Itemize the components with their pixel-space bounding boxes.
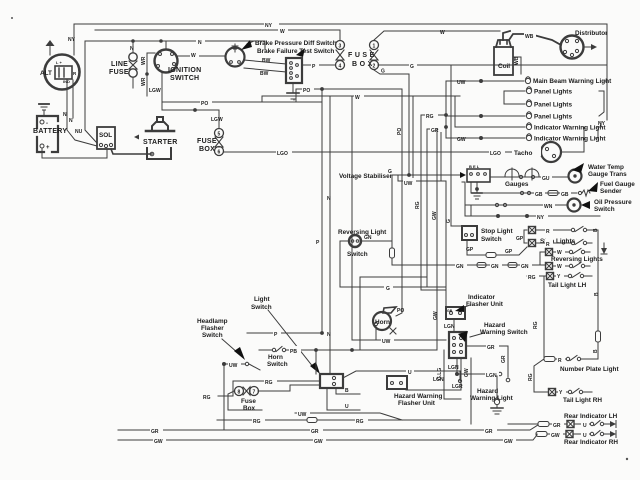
starter motor symbol [146, 117, 174, 131]
brake failure test switch box [286, 58, 302, 83]
arrow into test box [296, 48, 305, 57]
svg-text:Number Plate Light: Number Plate Light [560, 366, 619, 373]
ground above battery [39, 104, 49, 116]
svg-text:LGR: LGR [452, 384, 463, 390]
svg-text:W: W [280, 29, 285, 35]
arrow small left of starter [134, 135, 139, 140]
horn [373, 307, 396, 330]
label light switch [251, 296, 272, 311]
label fuse box top [348, 52, 375, 68]
svg-text:GW: GW [457, 137, 466, 143]
svg-text:IGNITION: IGNITION [168, 67, 202, 74]
svg-text:Switch: Switch [481, 236, 502, 243]
wire stop row2 contacts [536, 240, 592, 245]
reversing light switch [349, 235, 361, 247]
gauge symbol 1 [505, 168, 519, 180]
svg-text:W: W [557, 264, 562, 270]
wire GLG vertical [444, 350, 461, 399]
wire indicator warn row2 [446, 137, 525, 140]
svg-text:GB: GB [561, 192, 569, 198]
svg-text:Distributor: Distributor [575, 30, 608, 37]
svg-text:GB: GB [535, 192, 543, 198]
svg-text:Tacho: Tacho [514, 150, 532, 157]
arrow distributor right [583, 44, 597, 50]
svg-text:U: U [345, 404, 349, 410]
svg-text:N: N [327, 196, 331, 202]
svg-text:Stop Light: Stop Light [481, 228, 513, 235]
svg-text:Rear Indicator RH: Rear Indicator RH [564, 439, 618, 446]
svg-text:U: U [408, 370, 412, 376]
wire GR long row [118, 425, 538, 430]
label hazard warning switch [480, 322, 528, 336]
svg-text:GR: GR [485, 429, 493, 435]
svg-text:GW: GW [314, 439, 323, 445]
lamp panel3 [526, 112, 531, 119]
svg-text:Brake Pressure Diff Switch: Brake Pressure Diff Switch [255, 40, 337, 47]
wire NY right vertical [606, 24, 608, 120]
lamp main beam warning [525, 77, 530, 84]
svg-text:GW: GW [464, 368, 470, 377]
svg-text:Panel Lights: Panel Lights [534, 89, 572, 96]
fuse 1-2 [370, 41, 379, 70]
wire UW main beam row [446, 80, 524, 83]
svg-text:6: 6 [218, 150, 221, 156]
svg-text:Reversing Lights: Reversing Lights [551, 256, 603, 263]
horn switch contacts [259, 347, 316, 375]
light switch box [320, 374, 343, 388]
label headlamp flasher switch [197, 318, 228, 339]
wire ignition W to brake switch [177, 55, 226, 57]
svg-text:Horn: Horn [268, 354, 283, 361]
svg-text:WB: WB [514, 56, 520, 65]
svg-text:GW: GW [154, 439, 163, 445]
wire RG tail LH [527, 276, 546, 359]
rear indicator LH row [508, 421, 616, 428]
svg-text:W: W [355, 95, 360, 101]
wire GW vertical [436, 129, 438, 350]
svg-text:GP: GP [516, 236, 524, 242]
ground hazard light [491, 405, 503, 414]
lamp indicator warn2 [526, 134, 531, 141]
svg-text:RG: RG [356, 419, 364, 425]
svg-text:GR: GR [553, 423, 561, 429]
wire battery plus to SOL [42, 148, 107, 158]
wire RG mid [421, 81, 447, 290]
svg-text:Flasher: Flasher [201, 325, 224, 332]
number plate light resistor [544, 356, 598, 362]
svg-text:B: B [594, 292, 600, 296]
svg-text:UW: UW [229, 363, 238, 369]
svg-text:STARTER: STARTER [143, 139, 178, 146]
svg-text:U: U [583, 423, 587, 429]
wire LGW horizontal to fuse5 [162, 109, 219, 128]
wire B right edge [597, 230, 599, 330]
arrow water temp [572, 163, 584, 173]
hazard warning switch [449, 332, 466, 358]
svg-text:N: N [198, 40, 202, 46]
svg-text:UW: UW [457, 80, 466, 86]
svg-text:BW: BW [260, 71, 269, 77]
svg-text:Gauge Trans: Gauge Trans [588, 171, 627, 178]
svg-text:Switch: Switch [202, 332, 223, 339]
svg-text:5: 5 [218, 132, 221, 138]
wire G vertical long [451, 65, 462, 226]
label rear indicator RH [564, 439, 618, 446]
starter bracket [147, 148, 171, 159]
wire stab left verticals [462, 182, 471, 216]
svg-text:GN: GN [364, 235, 372, 241]
wire WN oil row [465, 203, 567, 206]
svg-text:Box: Box [243, 405, 256, 412]
arrow headlamp flasher [222, 339, 245, 360]
svg-text:Indicator Warning Light: Indicator Warning Light [534, 125, 606, 132]
svg-text:RG: RG [203, 395, 211, 401]
wire GN reversing [361, 240, 392, 242]
brake pressure diff switch circle [226, 44, 245, 67]
wire tail RH contacts [556, 389, 592, 394]
lamp tail RH [549, 389, 556, 396]
wire NY vertical alt [68, 37, 76, 43]
svg-text:PO: PO [397, 308, 404, 314]
horn cross [390, 328, 396, 334]
svg-text:B: B [593, 228, 599, 232]
svg-text:SWITCH: SWITCH [170, 75, 199, 82]
svg-text:ALT: ALT [40, 70, 52, 77]
svg-text:B E L: B E L [469, 164, 480, 169]
wire WB coil right down [513, 57, 521, 74]
headlamp flasher contact [245, 362, 260, 370]
svg-text:8: 8 [238, 390, 241, 396]
svg-text:LINE: LINE [111, 61, 128, 68]
svg-text:Headlamp: Headlamp [197, 318, 228, 325]
wire UW horn row [352, 326, 446, 340]
svg-text:GN: GN [521, 264, 529, 270]
svg-text:WR: WR [141, 56, 147, 65]
label main beam warning light [533, 78, 612, 85]
wire GU row [490, 175, 568, 178]
svg-text:3: 3 [339, 44, 342, 50]
svg-text:GW: GW [432, 211, 438, 220]
stop light switch [462, 226, 477, 240]
svg-text:-: - [46, 121, 48, 127]
fuse 8-7 horizontal [235, 387, 259, 396]
svg-text:WN: WN [544, 204, 553, 210]
svg-text:NU: NU [75, 129, 83, 135]
wire NY top bus [74, 24, 607, 55]
svg-text:Fuel Gauge: Fuel Gauge [600, 181, 635, 188]
arrow indicator flasher [455, 305, 470, 312]
svg-text:GU: GU [542, 176, 550, 182]
wire W upper bus [95, 30, 340, 40]
arrow light switch [268, 310, 320, 374]
wire W fuse1 to coil [374, 31, 500, 40]
arrow above ALT [46, 40, 55, 55]
arrow oil pressure [581, 201, 590, 209]
ground below test box [287, 83, 299, 99]
wire panel light row3 [446, 115, 525, 118]
label rear indicator LH [564, 413, 618, 420]
wire LGO fuse6 to tacho [224, 151, 542, 153]
wire UW row364 [223, 363, 246, 431]
lamp reversing 2 [546, 263, 553, 270]
arrow into stabiliser [460, 172, 466, 178]
line fuse [129, 41, 137, 88]
svg-text:W: W [191, 53, 196, 59]
svg-text:RG: RG [253, 419, 261, 425]
wire LGN hazard bottom [456, 358, 502, 376]
svg-text:GR: GR [431, 128, 439, 134]
wire G to stabiliser [392, 175, 460, 241]
resistor reversing vertical [390, 241, 395, 265]
fuel sender zigzag [578, 190, 590, 196]
svg-text:UW: UW [298, 412, 307, 418]
wire P fuse4 to test box [302, 64, 335, 66]
solenoid SOL [97, 127, 115, 149]
wire reversing left down [340, 241, 349, 287]
wire panel light row1 [504, 91, 525, 104]
svg-text:RG: RG [265, 380, 273, 386]
lamp hazard warning [494, 376, 499, 405]
svg-text:Switch: Switch [347, 251, 368, 258]
dot bottom right [626, 458, 628, 460]
fuse 3-4 [336, 41, 345, 70]
resistor GN 2 [508, 263, 517, 268]
label brake pressure diff switch [255, 40, 337, 55]
svg-text:Tail Light RH: Tail Light RH [563, 397, 602, 404]
wire coil to distributor WB [503, 31, 561, 45]
svg-text:GN: GN [491, 264, 499, 270]
svg-text:N: N [63, 112, 67, 118]
svg-text:RG: RG [426, 114, 434, 120]
water temp gauge trans [569, 170, 582, 183]
svg-text:N: N [130, 46, 134, 52]
wire ignition top N [165, 41, 167, 50]
svg-text:Brake Failure Test Switch: Brake Failure Test Switch [257, 48, 334, 55]
svg-text:G: G [388, 169, 392, 175]
wire stop row1 contacts [536, 227, 598, 232]
wire NY lower row [465, 215, 600, 218]
wire light switch left RG [218, 381, 320, 396]
label fuse box lower [241, 398, 256, 412]
arrow fuel sender [588, 182, 598, 192]
wire tacho right [455, 96, 584, 152]
svg-text:R: R [546, 229, 550, 235]
svg-text:LGO: LGO [277, 151, 288, 157]
svg-text:1: 1 [373, 44, 376, 50]
wire N vertical battery [67, 41, 97, 146]
wire G row287 [340, 286, 446, 288]
svg-text:BOX: BOX [199, 146, 215, 153]
svg-text:+: + [46, 145, 50, 151]
svg-text:GP: GP [466, 247, 474, 253]
wire G vertical from fuse2 [408, 74, 411, 176]
svg-text:NY: NY [537, 215, 545, 221]
svg-text:Flasher Unit: Flasher Unit [466, 301, 504, 308]
rear indicator RH row [536, 431, 616, 438]
svg-text:LGN: LGN [444, 324, 455, 330]
wire G from fuse2 right [378, 64, 607, 66]
wire PO vertical horn [396, 89, 402, 316]
svg-text:Gauges: Gauges [505, 181, 529, 188]
node NY label [264, 20, 279, 29]
wire RG tail RH vertical [534, 359, 548, 392]
svg-text:LGN: LGN [486, 373, 497, 379]
distributor [561, 36, 584, 59]
lamp stop light 2 [529, 240, 536, 247]
svg-text:Voltage Stabiliser: Voltage Stabiliser [339, 173, 393, 180]
wire stop lamps left link [524, 230, 527, 243]
svg-text:Reversing Light: Reversing Light [338, 229, 387, 236]
wire light switch bottom [327, 388, 360, 410]
svg-text:LGN: LGN [448, 365, 459, 371]
resistor fuel [548, 191, 558, 196]
svg-text:UW: UW [404, 181, 413, 187]
wire WR ignition [146, 53, 155, 96]
svg-text:GB: GB [447, 309, 453, 313]
svg-text:G.LG: G.LG [437, 368, 443, 380]
wire N vertical mid [329, 96, 331, 374]
alternator ALT [45, 55, 80, 90]
svg-text:GN: GN [456, 264, 464, 270]
arrow to brake switch [241, 40, 254, 50]
wire light switch right U [343, 371, 462, 383]
node dot topleft [11, 17, 13, 19]
svg-text:PO: PO [201, 101, 208, 107]
wire W mid [262, 96, 460, 102]
battery [37, 116, 58, 152]
svg-text:PO: PO [397, 128, 403, 135]
svg-text:PO: PO [303, 88, 310, 94]
svg-text:GR: GR [501, 355, 507, 363]
svg-text:Horn: Horn [375, 319, 390, 326]
wire row277 [360, 277, 427, 350]
wire reversing row2 [553, 263, 590, 268]
wire GR mid [427, 129, 441, 287]
svg-text:RG: RG [415, 201, 421, 209]
wire ALT terminals down [67, 80, 73, 118]
wire ignition LGW down [161, 72, 163, 110]
svg-text:G: G [386, 286, 390, 292]
svg-text:L +: L + [56, 60, 62, 65]
oil pressure switch [568, 199, 581, 212]
arrow hazard switch [458, 331, 484, 342]
svg-text:W: W [440, 30, 445, 36]
wire UW row413 [295, 413, 402, 420]
wire GP stop [467, 240, 527, 255]
fuse 5-6 [215, 129, 224, 156]
svg-text:R: R [546, 242, 550, 248]
svg-text:Oil Pressure: Oil Pressure [594, 199, 632, 206]
wire P vertical [321, 88, 324, 333]
svg-text:GR: GR [151, 429, 159, 435]
voltage stabiliser box [467, 169, 490, 182]
svg-text:PB: PB [290, 349, 297, 355]
svg-text:Indicator Warning Light: Indicator Warning Light [534, 136, 606, 143]
svg-text:NY: NY [68, 37, 76, 43]
lamp tail LH [547, 273, 554, 280]
svg-text:GW: GW [504, 439, 513, 445]
svg-text:Hazard Warning: Hazard Warning [394, 393, 443, 400]
svg-text:BW: BW [262, 58, 271, 64]
svg-text:LGW: LGW [149, 88, 161, 94]
wire row350 right [315, 349, 437, 352]
svg-text:N: N [69, 118, 73, 124]
lamp indicator warn1 [526, 123, 531, 130]
lamp panel2 [526, 100, 531, 107]
label voltage stabiliser [339, 173, 393, 180]
wire LGN flasher to hazard [453, 319, 455, 332]
svg-text:WR: WR [141, 77, 147, 86]
label fuse box mid [197, 138, 217, 153]
wire indicator warn row1 [455, 126, 525, 128]
svg-text:2: 2 [373, 64, 376, 70]
lamp panel1 [526, 87, 531, 94]
coil [494, 40, 513, 75]
gauge symbol 2 [525, 168, 539, 180]
wire UW row181 [398, 96, 446, 181]
svg-text:GR: GR [487, 345, 495, 351]
svg-text:NY: NY [598, 121, 606, 127]
svg-text:RG: RG [533, 321, 539, 329]
svg-text:Main Beam Warning Light: Main Beam Warning Light [533, 78, 612, 85]
wire BW brake circle to test box [244, 60, 286, 72]
wire UW vertical mid [351, 96, 353, 340]
svg-text:Tail Light LH: Tail Light LH [548, 282, 587, 289]
svg-text:BATTERY: BATTERY [33, 128, 67, 135]
indicator flasher unit [446, 307, 465, 319]
wire RG row420 [217, 418, 460, 423]
svg-text:Hazard: Hazard [477, 388, 498, 395]
wire PO main [162, 89, 402, 102]
wire GN row265 [392, 264, 546, 266]
lamp reversing 1 [546, 249, 553, 256]
svg-text:G: G [410, 64, 414, 70]
svg-text:Warning Switch: Warning Switch [480, 329, 528, 336]
wire GB fuel row [471, 182, 577, 195]
wire reversing row1 [540, 249, 590, 266]
svg-text:GR: GR [311, 429, 319, 435]
wire P row333 [247, 332, 323, 335]
svg-text:FUSE: FUSE [109, 69, 129, 76]
wire fuse8 left [228, 391, 262, 410]
svg-text:GW: GW [551, 433, 560, 439]
svg-text:Rear Indicator LH: Rear Indicator LH [564, 413, 618, 420]
svg-text:LGW: LGW [211, 117, 223, 123]
svg-text:G: G [381, 69, 385, 75]
svg-text:Light: Light [254, 296, 270, 303]
svg-text:B: B [593, 349, 599, 353]
ground top mid [293, 99, 295, 101]
wire fuse7 right [258, 385, 320, 391]
svg-text:Panel Lights: Panel Lights [534, 102, 572, 109]
svg-text:G: G [446, 219, 452, 223]
svg-text:FUSE: FUSE [197, 138, 217, 145]
wire GW long row [118, 435, 537, 440]
svg-text:UW: UW [382, 339, 391, 345]
svg-text:Fuse: Fuse [241, 398, 256, 405]
svg-text:R: R [558, 358, 562, 364]
svg-text:Warning Light: Warning Light [470, 395, 514, 402]
wire LGR hazard [406, 358, 461, 390]
label hazard warning light [470, 388, 514, 402]
hazard warning flasher unit [387, 376, 407, 389]
svg-text:SOL: SOL [99, 132, 112, 139]
svg-text:WB: WB [525, 34, 534, 40]
svg-text:Flasher Unit: Flasher Unit [398, 400, 436, 407]
svg-text:B: B [345, 388, 349, 394]
wire GW hazard down [470, 358, 472, 424]
wire tail LH contacts [554, 273, 592, 278]
